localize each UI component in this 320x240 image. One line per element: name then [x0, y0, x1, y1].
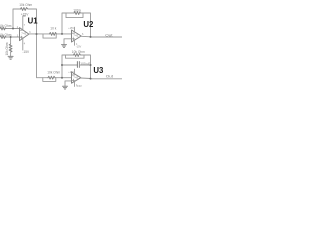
- junction node U3 input: [61, 77, 63, 79]
- svg-text:+15V: +15V: [68, 71, 74, 74]
- svg-text:Out: Out: [105, 33, 112, 37]
- resistor R1 (clipped at left edge): [0, 27, 6, 30]
- svg-text:10k Ohm: 10k Ohm: [0, 33, 12, 37]
- svg-text:U1: U1: [28, 17, 39, 26]
- svg-text:100 uF: 100 uF: [80, 62, 90, 66]
- ground GND1: [8, 55, 13, 57]
- svg-text:-15V: -15V: [22, 50, 30, 54]
- op-amp U3 minus mark: [72, 74, 74, 76]
- svg-text:10k Ohm: 10k Ohm: [0, 24, 12, 28]
- wire input A top: [6, 28, 20, 30]
- svg-text:+15V: +15V: [68, 27, 74, 30]
- wire U2 feedback inner loop: [66, 13, 83, 18]
- svg-text:741: 741: [73, 35, 79, 38]
- ground GND2: [62, 44, 67, 46]
- op-amp U2 plus mark: [72, 38, 74, 40]
- U3 V+ power pin: [74, 69, 76, 74]
- U1 V- power pin: [22, 39, 24, 50]
- svg-text:U2: U2: [83, 20, 94, 29]
- svg-text:10k Ohm: 10k Ohm: [72, 50, 85, 54]
- wire R6 bypass loop below: [43, 78, 56, 82]
- U1 V+ power pin: [23, 16, 26, 30]
- junction node U1 output: [36, 33, 38, 35]
- U2 V+ power pin: [74, 27, 76, 32]
- capacitor C1 plates: [76, 62, 78, 68]
- op-amp U2 triangle: [72, 30, 82, 42]
- junction node cap left: [61, 64, 63, 66]
- wire U2 feedback top right: [81, 13, 91, 37]
- junction node B input bottom: [10, 36, 12, 38]
- U3 V- power pin: [74, 81, 76, 86]
- wire U1 output to link: [29, 33, 50, 35]
- junction node U2 output: [90, 36, 92, 38]
- svg-text:U3: U3: [93, 66, 104, 75]
- wire U3 ground L: [65, 81, 72, 86]
- resistor R5 series link: [50, 33, 57, 36]
- op-amp U1 plus mark: [20, 36, 22, 38]
- wire U3 capacitor branch left: [62, 64, 77, 66]
- ground GND3: [63, 85, 68, 87]
- resistor R3 feedback U1: [21, 8, 29, 11]
- svg-text:7: 7: [24, 24, 26, 27]
- junction node A input top: [12, 28, 14, 30]
- junction node cap right: [90, 64, 92, 66]
- wire branch down to U3: [37, 34, 49, 78]
- wire R8 bypass loop below: [66, 55, 85, 58]
- svg-text:100 k: 100 k: [73, 8, 81, 12]
- wire U3 capacitor branch right: [79, 64, 90, 66]
- svg-text:10k Ohm: 10k Ohm: [5, 42, 9, 55]
- svg-text:4: 4: [24, 42, 26, 45]
- resistor R8 feedback U3: [74, 54, 81, 57]
- junction node U2 input: [61, 33, 63, 35]
- wire link bypass loop below: [43, 34, 56, 38]
- svg-text:10k Ohm: 10k Ohm: [19, 3, 32, 7]
- U2 V- power pin: [74, 40, 76, 45]
- wire to U3 input: [55, 77, 72, 79]
- svg-text:741: 741: [73, 76, 79, 79]
- wire U2 ground L: [64, 39, 72, 45]
- svg-text:6: 6: [82, 33, 84, 36]
- op-amp U1 minus mark: [20, 29, 22, 31]
- junction node U3 output: [90, 78, 92, 80]
- wire U3 feedback top right: [81, 55, 91, 79]
- resistor R7 feedback U2: [74, 12, 81, 15]
- resistor R4 to ground vertical: [10, 37, 12, 44]
- svg-text:10k Ohm: 10k Ohm: [47, 71, 60, 75]
- wire U3 output: [81, 77, 91, 80]
- wire input B bottom: [6, 36, 20, 38]
- wire U2 feedback left leg: [62, 13, 74, 34]
- svg-text:10 k: 10 k: [50, 26, 56, 30]
- wire U1 feedback left leg: [13, 9, 21, 29]
- wire U2 output: [81, 35, 90, 38]
- svg-text:Out: Out: [106, 75, 113, 79]
- op-amp U2 minus mark: [72, 32, 74, 34]
- resistor R6 series to U3: [48, 76, 55, 79]
- wire U3 feedback left leg: [62, 55, 74, 78]
- wire U1 feedback top right: [28, 9, 37, 34]
- svg-text:741: 741: [21, 32, 27, 35]
- resistor R2 (clipped at left edge): [0, 36, 6, 39]
- wire link to U2 input: [57, 33, 72, 35]
- op-amp U3 triangle: [72, 72, 81, 83]
- op-amp U1 triangle: [20, 28, 29, 41]
- op-amp U3 plus mark: [72, 79, 74, 81]
